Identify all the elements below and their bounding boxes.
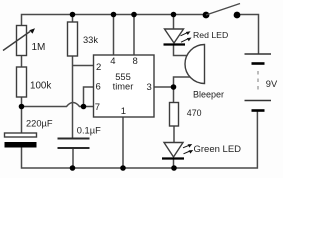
svg-text:8: 8 [133,56,138,67]
node 0.1uF ground [70,165,76,171]
resistor R4 470 body [170,103,179,127]
svg-text:470: 470 [187,108,202,118]
wire green LED to bottom rail [173,159,175,169]
node pin1 ground [120,165,126,171]
resistor VR1 arrow [3,28,35,50]
battery B1 9V [245,54,272,111]
wire pin3 [154,86,174,88]
capacitor C1 220uF [5,133,37,148]
svg-text:7: 7 [95,102,100,113]
svg-text:timer: timer [113,82,134,92]
LED D1 red [164,29,192,45]
wire 33k top [72,15,74,23]
svg-text:555: 555 [115,72,131,82]
node dots [19,12,177,171]
wire 33k bottom down to 0.1uF [72,56,74,139]
svg-text:4: 4 [110,56,115,67]
wire top rail left segment [22,15,206,26]
svg-text:33k: 33k [83,35,98,45]
wire pin7 horizontal with hop [22,103,94,107]
svg-text:Green LED: Green LED [194,144,242,155]
node red LED top [171,12,177,18]
wire 0.1uF bottom [72,148,74,168]
svg-text:100k: 100k [30,81,51,92]
wire pin2 [73,65,94,67]
svg-text:2: 2 [96,62,101,73]
wire top rail right segment to battery [238,15,259,55]
svg-text:6: 6 [96,82,101,93]
svg-text:1M: 1M [32,42,46,53]
node 33k top [70,12,76,18]
svg-text:9V: 9V [266,79,278,89]
resistor R2 100k body [17,67,27,97]
node pin3 [171,84,177,90]
node pin8 top [131,12,137,18]
svg-text:220µF: 220µF [26,119,53,129]
capacitor C2 0.1uF [58,139,90,149]
wire bottom rail [22,111,258,169]
node 100k bottom [19,104,25,110]
wire bleeper bottom to pin3 node to 470 [174,77,191,103]
svg-text:1: 1 [121,106,126,117]
wire 470 to green LED [173,126,175,143]
node pin4 top [111,12,117,18]
LED D2 green [162,143,193,159]
wire red LED anode [173,15,175,30]
wire red LED cathode to bleeper top [174,46,188,56]
wire pin1 [122,117,124,168]
node pin6/7 [81,104,87,110]
svg-text:Bleeper: Bleeper [193,90,224,100]
switch S1 [203,4,241,19]
resistor R3 33k body [68,22,78,56]
node green LED ground [171,165,177,171]
wire pot to 100k [21,56,23,68]
wire pin6 link [84,87,94,107]
wire pin8 [133,15,135,56]
bleeper LS1 [185,45,205,84]
op-amp U1 555 timer box [94,55,155,117]
wire 100k bottom to 220uF [21,97,23,133]
wire pin4 [113,15,115,56]
resistor VR1 1M body [17,26,27,56]
svg-text:3: 3 [147,82,152,93]
svg-text:0.1µF: 0.1µF [77,126,101,136]
svg-text:Red LED: Red LED [193,30,228,40]
